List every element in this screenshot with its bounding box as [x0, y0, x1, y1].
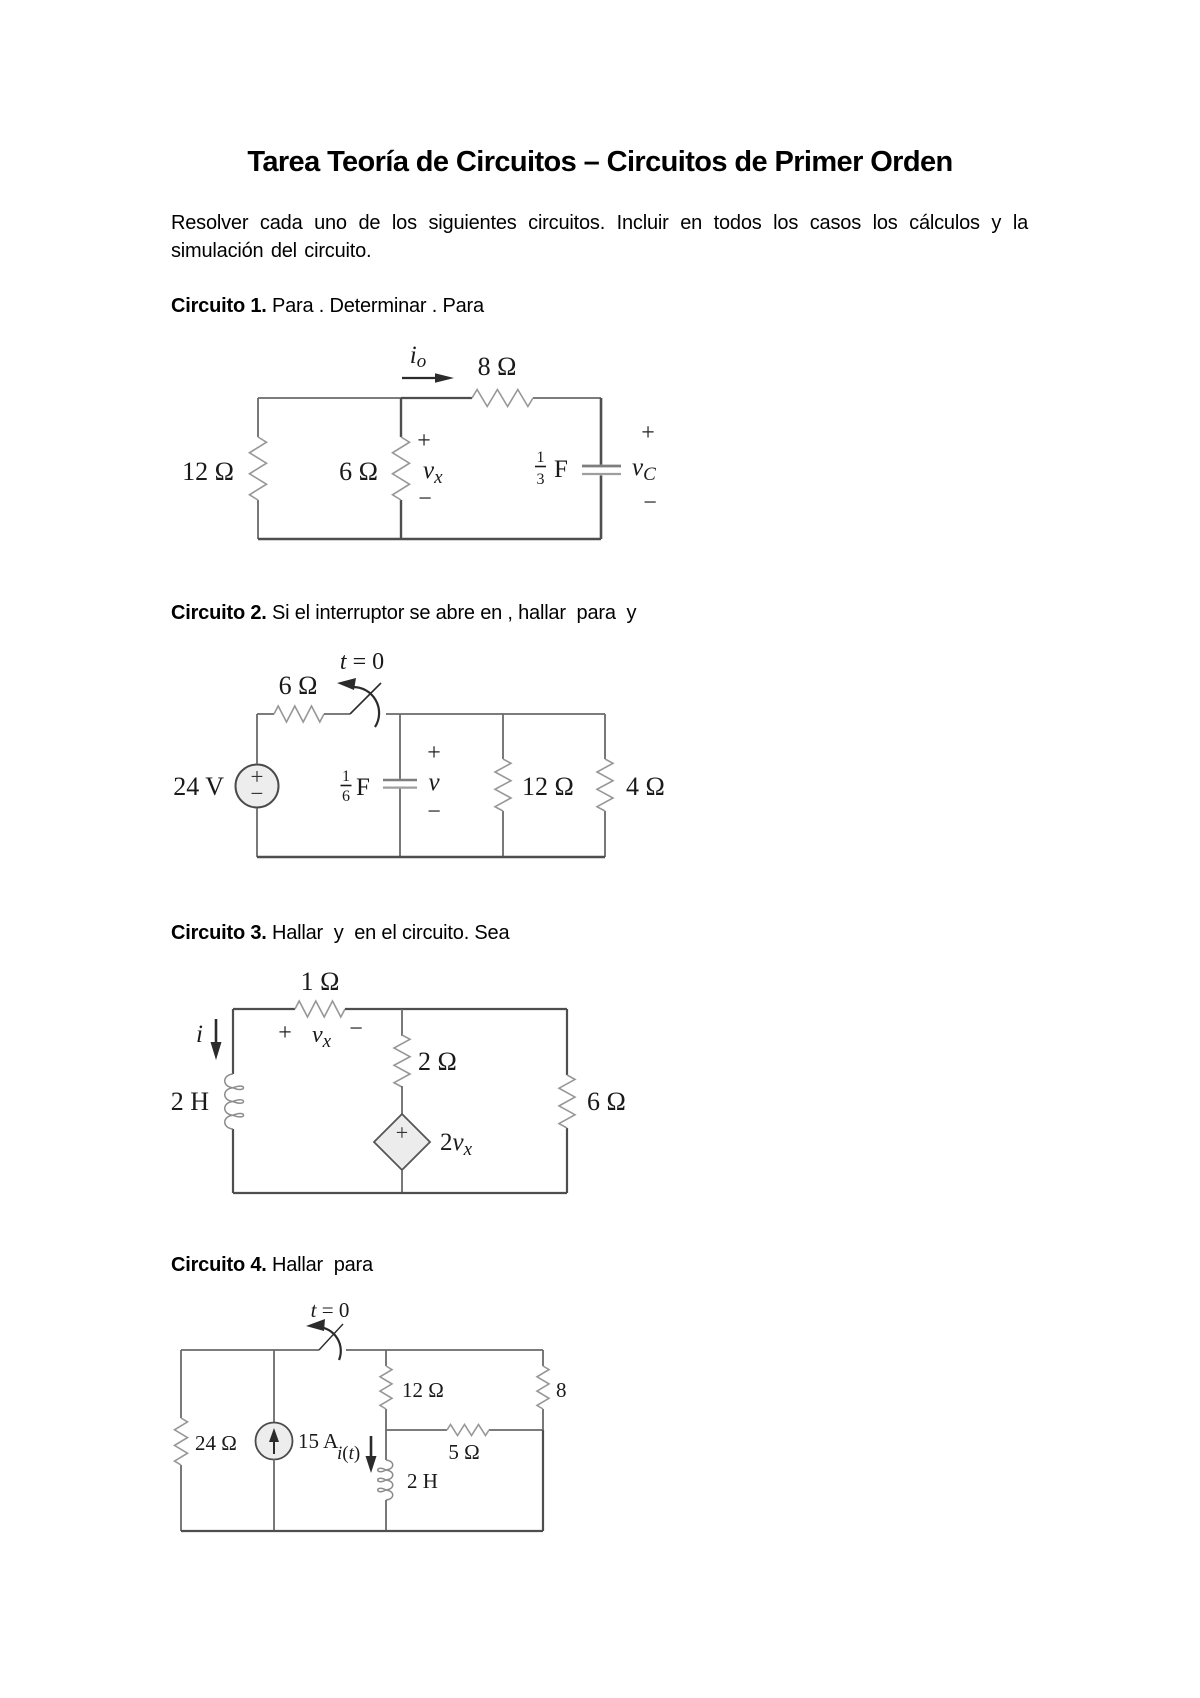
- svg-text:−: −: [418, 486, 432, 512]
- svg-text:F: F: [554, 456, 568, 483]
- svg-text:−: −: [251, 781, 264, 806]
- heading circuito 3: [171, 922, 509, 945]
- svg-text:+: +: [417, 428, 431, 454]
- circuit 3: [171, 967, 626, 1193]
- svg-text:v: v: [428, 769, 440, 796]
- wire left vertical c4: [180, 1350, 182, 1418]
- dependent source diamond 2vx: [374, 1114, 430, 1170]
- wire diamond to bottom: [401, 1170, 403, 1193]
- svg-text:5 Ω: 5 Ω: [448, 1440, 479, 1464]
- switch arc with arrow: [352, 687, 379, 727]
- switch arc c4: [319, 1327, 341, 1360]
- switch arrowhead c4: [306, 1319, 325, 1331]
- bottom wire c3: [233, 1192, 567, 1194]
- svg-text:+: +: [396, 1120, 408, 1145]
- capacitor 1/6F plates: [383, 779, 417, 782]
- wire 6ohm to switch: [324, 713, 350, 715]
- resistor 12 ohm c4: [380, 1366, 392, 1409]
- circuit 4: [175, 1298, 567, 1531]
- resistor 12 ohm c2: [495, 759, 511, 811]
- wire bottom: [258, 538, 601, 541]
- svg-text:+: +: [427, 740, 441, 766]
- arrow io: [402, 377, 441, 379]
- svg-text:vx: vx: [423, 457, 443, 488]
- heading circuito 2: [171, 602, 636, 625]
- wire top right (M to R) with 8ohm gap: [401, 397, 472, 399]
- cap branch vertical: [399, 714, 401, 779]
- svg-text:12 Ω: 12 Ω: [522, 772, 574, 801]
- wire middle branch top c3: [401, 1009, 403, 1036]
- paragraph: [171, 210, 1028, 265]
- svg-text:+: +: [641, 420, 655, 446]
- title: [0, 146, 1200, 179]
- circuit 1: [182, 342, 657, 539]
- svg-text:15 A: 15 A: [298, 1429, 339, 1453]
- arrow i(t): [370, 1436, 373, 1460]
- bottom wire c4: [181, 1530, 543, 1532]
- resistor 24 ohm: [175, 1418, 188, 1465]
- svg-text:3: 3: [537, 471, 545, 488]
- wire middle horizontal c4: [386, 1429, 447, 1431]
- wire inductor to bottom: [385, 1500, 387, 1531]
- svg-text:6 Ω: 6 Ω: [339, 457, 378, 486]
- wire switch to right c4: [346, 1349, 543, 1351]
- svg-text:2vx: 2vx: [440, 1129, 473, 1160]
- resistor 6 ohm c3: [559, 1075, 575, 1128]
- wire left vertical c3: [232, 1009, 234, 1074]
- top wire segments: [181, 1349, 319, 1351]
- resistor 4 ohm c2: [597, 759, 613, 811]
- svg-text:24 Ω: 24 Ω: [195, 1431, 237, 1455]
- inductor 2H: [225, 1074, 244, 1129]
- wire left vertical: [256, 714, 258, 764]
- current source 15A: [273, 1350, 275, 1423]
- resistor 8 ohm c4: [537, 1366, 549, 1409]
- svg-text:+: +: [278, 1020, 292, 1046]
- heading circuito 4: [171, 1254, 373, 1277]
- inductor 2H c4: [378, 1460, 393, 1500]
- svg-text:2 Ω: 2 Ω: [418, 1047, 457, 1076]
- svg-text:24 V: 24 V: [173, 772, 224, 801]
- svg-text:4 Ω: 4 Ω: [626, 772, 665, 801]
- resistor 6 ohm: [393, 437, 410, 500]
- heading circuito 1: [171, 295, 484, 318]
- svg-text:1 Ω: 1 Ω: [301, 967, 340, 996]
- wire 2ohm to diamond: [401, 1086, 403, 1114]
- wire middle branch c4: [385, 1350, 387, 1366]
- svg-text:8 Ω: 8 Ω: [478, 352, 517, 381]
- svg-text:6 Ω: 6 Ω: [279, 671, 318, 700]
- svg-text:vx: vx: [312, 1022, 332, 1052]
- svg-text:i(t): i(t): [337, 1443, 360, 1464]
- svg-text:12 Ω: 12 Ω: [182, 457, 234, 486]
- svg-text:t = 0: t = 0: [340, 649, 384, 675]
- wire right vertical: [600, 398, 603, 465]
- circuit 2: [173, 649, 665, 857]
- wire 12 ohm branch: [502, 714, 504, 759]
- wire top left (L to M): [258, 397, 401, 399]
- svg-text:12 Ω: 12 Ω: [402, 1378, 444, 1402]
- switch blade: [350, 683, 381, 714]
- svg-text:io: io: [410, 342, 426, 372]
- wire 4 ohm branch: [604, 714, 606, 759]
- switch blade c4: [319, 1324, 343, 1350]
- svg-text:t = 0: t = 0: [311, 1298, 350, 1322]
- svg-text:2 H: 2 H: [407, 1469, 438, 1493]
- wire mid vertical: [400, 398, 402, 437]
- svg-text:6 Ω: 6 Ω: [587, 1087, 626, 1116]
- wire top: source to 6ohm: [257, 713, 274, 715]
- svg-text:vC: vC: [632, 454, 656, 485]
- resistor 12 ohm: [250, 437, 267, 500]
- svg-text:F: F: [356, 774, 370, 801]
- wire switch to right: [386, 713, 605, 715]
- svg-text:8: 8: [556, 1378, 567, 1402]
- resistor 2 ohm: [394, 1035, 410, 1087]
- wire right vertical c4: [542, 1350, 544, 1366]
- arrow i down: [215, 1019, 218, 1046]
- wire source to bottom c4: [273, 1459, 275, 1531]
- svg-text:6: 6: [342, 788, 350, 805]
- top wire with 1ohm: [233, 1008, 295, 1010]
- svg-text:i: i: [196, 1021, 203, 1048]
- wire midwire to inductor: [385, 1430, 387, 1460]
- svg-text:−: −: [643, 490, 657, 516]
- resistor 6 ohm: [274, 706, 324, 722]
- capacitor 1/3 F plates: [582, 465, 621, 468]
- svg-text:−: −: [427, 799, 441, 825]
- svg-text:1: 1: [537, 449, 545, 466]
- svg-text:−: −: [349, 1016, 363, 1042]
- svg-text:1: 1: [342, 768, 350, 785]
- resistor R 8ohm horizontal: [472, 390, 533, 407]
- svg-text:2 H: 2 H: [171, 1087, 210, 1116]
- resistor 5 ohm: [447, 1425, 489, 1436]
- wire bottom c2: [257, 856, 605, 859]
- wire right vertical c3: [566, 1009, 568, 1075]
- wire left vertical: [257, 398, 259, 437]
- voltage source 24V circle: [236, 765, 279, 808]
